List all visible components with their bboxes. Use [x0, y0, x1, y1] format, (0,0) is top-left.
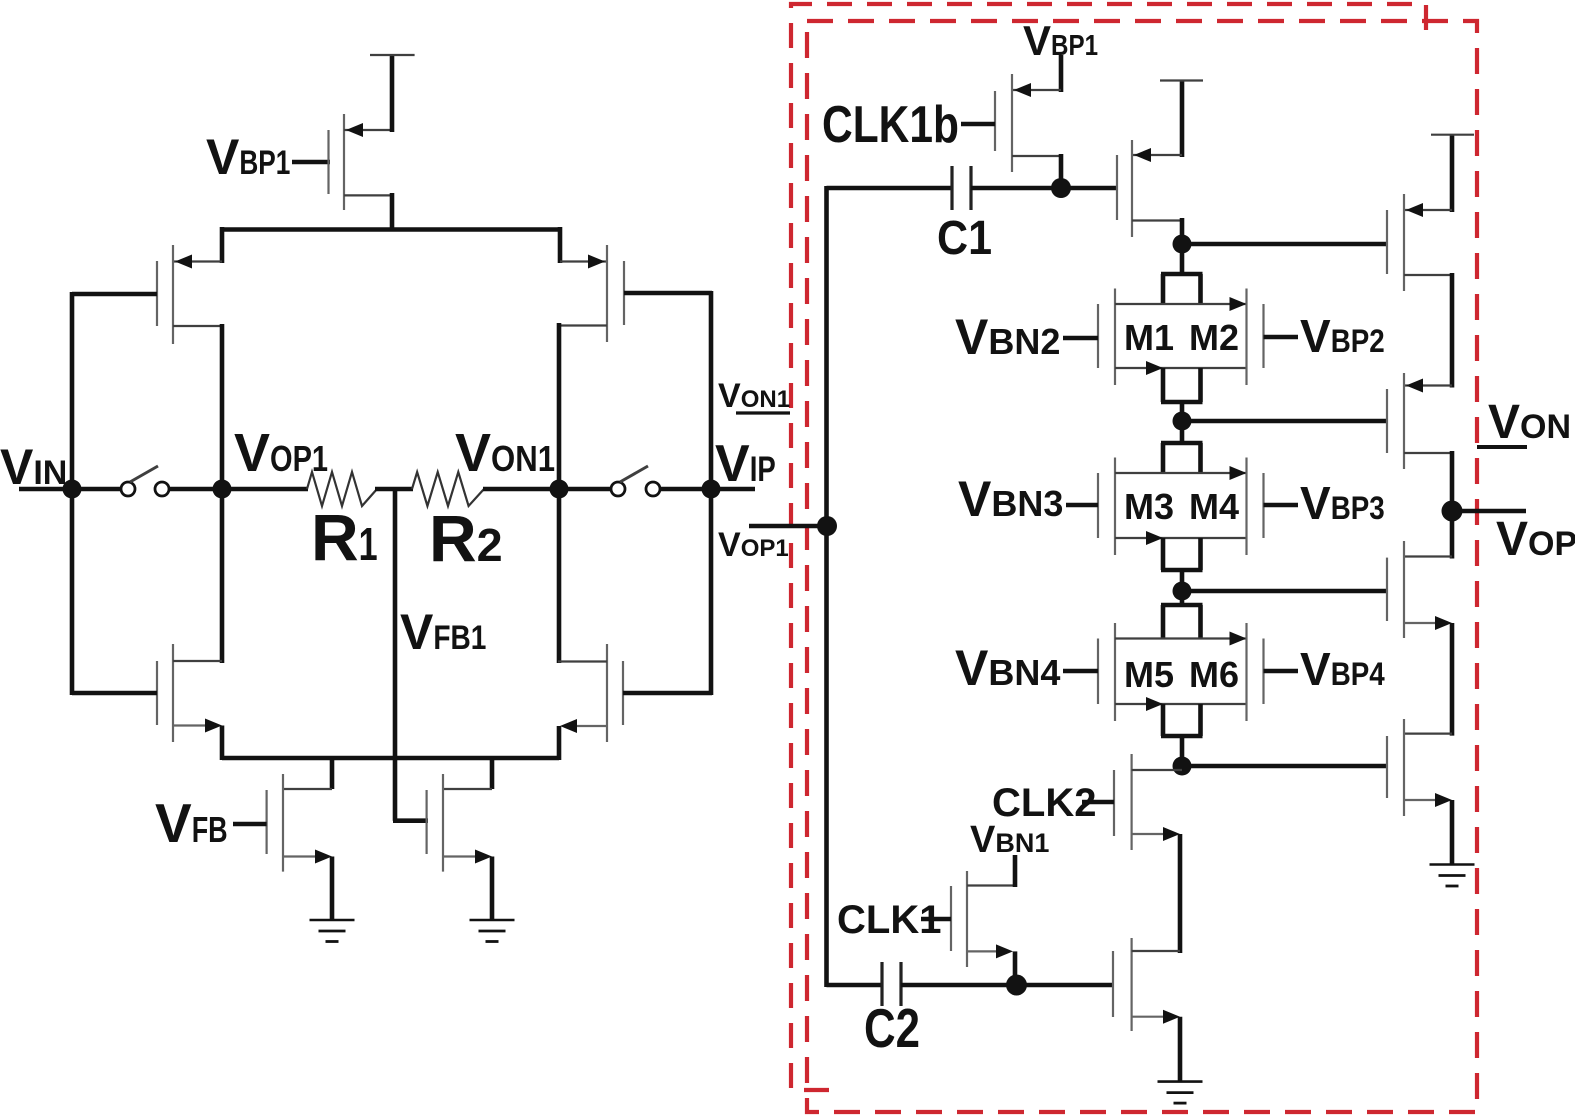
wire VBN4 gate lead [1063, 669, 1098, 674]
transistor NMOS input left [72, 644, 222, 760]
wire VON1 output stub [736, 411, 790, 414]
wire stem out of M3/M4 block [1161, 538, 1203, 591]
node VOP [1442, 501, 1463, 522]
transistor PMOS input left (VIN) [72, 227, 222, 344]
label R2 [429, 501, 503, 575]
capacitor C2 [882, 962, 901, 1006]
label CLK1b [822, 96, 959, 154]
svg-text:C1: C1 [937, 212, 992, 265]
label M4 [1189, 486, 1239, 527]
wire top rail (diff-pair sources) [220, 227, 562, 232]
wire bottom source rail [222, 756, 559, 761]
wire VOP1 drain vertical [220, 324, 225, 663]
label M1 [1124, 317, 1174, 358]
label VBN2 [955, 309, 1060, 365]
label VBP1 (left tail gate) [206, 129, 290, 185]
label VBN1 [970, 819, 1049, 861]
transistor M1 (NMOS) [1098, 289, 1247, 386]
wire to ground (output column) [1450, 800, 1455, 865]
wire VBP1 gate lead [292, 160, 330, 165]
label VBP2 [1300, 310, 1385, 362]
label VBP4 [1300, 643, 1385, 695]
svg-text:M1: M1 [1124, 317, 1174, 358]
label C2 [864, 997, 920, 1059]
svg-text:M5: M5 [1124, 654, 1174, 695]
wire C2 right (to NMOS gate) [901, 983, 1113, 988]
switch S2 (input right) [611, 466, 660, 496]
transistor NMOS tail VFB [233, 756, 332, 920]
label VOP1 output (to 2nd stage) [718, 526, 789, 564]
wire stem into M1/M2 block [1161, 244, 1203, 304]
label R1 [311, 500, 378, 574]
ground (output column) [1430, 865, 1475, 887]
wire VOP1 segment [169, 487, 308, 492]
svg-text:C2: C2 [864, 997, 920, 1059]
ground (VFB1 source) [470, 920, 515, 942]
label C1 [937, 212, 992, 265]
wire VBP1 to CLK1b source [1059, 55, 1064, 92]
svg-text:CLK1: CLK1 [837, 898, 941, 942]
ground (clock branch) [1158, 1082, 1203, 1104]
svg-text:CLK2: CLK2 [992, 781, 1096, 825]
wire VOP1 into 2nd stage [749, 524, 827, 529]
label M5 [1124, 654, 1174, 695]
label M6 [1189, 654, 1239, 695]
resistor R1 [307, 472, 377, 506]
node N1 [1173, 235, 1192, 254]
ground (VFB source) [310, 920, 355, 942]
transistor NMOS tail VFB1 [427, 756, 492, 920]
power stub VDD (tail) [370, 54, 415, 56]
transistor PMOS cascode top [1117, 81, 1182, 247]
wire VOP stub [1452, 509, 1526, 514]
node VON1 [550, 480, 569, 499]
wire stem out of M5/M6 block [1161, 704, 1203, 766]
wire N3 to NMOS gate (right column) [1182, 589, 1387, 594]
outer red dashed box (2nd stage) [791, 4, 1426, 1090]
transistor PMOS tail VBP1 [329, 55, 393, 231]
node N4 [1173, 757, 1192, 776]
transistor PMOS output top (gate N1) [1387, 135, 1452, 291]
wire VON1 drain vertical [557, 323, 562, 663]
transistor NMOS CLK1 (VBN1 cascode) [921, 871, 1015, 986]
wire VOP drain vertical [1450, 451, 1455, 559]
wire feedback tap (R1/R2 mid to VFB1 gate) [393, 489, 428, 821]
svg-text:M6: M6 [1189, 654, 1239, 695]
transistor PMOS output cascode (gate N2) [1387, 373, 1452, 469]
wire left column (C1 to C2) [824, 186, 829, 987]
transistor M5 (NMOS) [1098, 623, 1247, 721]
label VBP3 [1300, 477, 1385, 529]
transistor NMOS output bottom (gate N4) [1387, 719, 1452, 816]
wire stem into M5/M6 block [1161, 591, 1203, 639]
wire VIP gate vertical [709, 291, 714, 695]
wire VIP segment [660, 487, 755, 492]
label CLK2 [992, 781, 1096, 825]
label M3 [1124, 486, 1174, 527]
node C1/CLK1b junction [1051, 178, 1071, 198]
inner red dashed box (2nd stage) [807, 21, 1477, 1112]
label VBP1 (2nd stage) [1023, 17, 1098, 64]
transistor NMOS CLK2 [1082, 754, 1182, 953]
wire C1 left [827, 186, 953, 191]
transistor NMOS bottom (gate from C2) [1113, 938, 1180, 1082]
wire VON1 segment [483, 487, 612, 492]
wire VBP3 gate lead [1264, 503, 1299, 508]
node VIN [63, 480, 82, 499]
wire C2 left [827, 983, 883, 988]
transistor M2 (PMOS) [1247, 289, 1264, 386]
transistor PMOS CLK1b [961, 74, 1061, 190]
wire C1 right (to cascode gate) [971, 186, 1117, 191]
wire VIN lead [19, 487, 123, 492]
wire VBN2 gate lead [1063, 336, 1098, 341]
node VIP [702, 480, 721, 499]
wire resistor centre tap bar [375, 487, 413, 492]
label VIP [715, 435, 776, 493]
svg-text:M2: M2 [1189, 317, 1239, 358]
label VOP1 (node) [234, 423, 328, 483]
power stub VDD (output column) [1431, 134, 1474, 136]
transistor NMOS output cascode (gate N3) [1387, 541, 1452, 638]
wire N1 to PMOS gate (right column) [1182, 242, 1387, 247]
label VBN3 [958, 471, 1063, 527]
wire VBP4 gate lead [1264, 669, 1299, 674]
resistor R2 [412, 472, 484, 506]
label VON1 (node) [455, 423, 555, 483]
wire VBN1 to CLK1 drain [1013, 855, 1018, 887]
svg-text:CLK1b: CLK1b [822, 96, 959, 154]
label VFB1 [400, 604, 486, 660]
wire stem out of M1/M2 block [1161, 368, 1203, 421]
switch S1 (input left) [121, 466, 169, 496]
node N3 [1173, 582, 1192, 601]
label VIN [0, 439, 67, 495]
label CLK1 [837, 898, 941, 942]
wire stem into M3/M4 block [1161, 421, 1203, 473]
transistor PMOS input right (VIP) [559, 227, 712, 342]
label VFB [155, 792, 228, 854]
wire VBN3 gate lead [1066, 503, 1098, 508]
wire N4 to NMOS gate (right column) [1182, 764, 1387, 769]
label M2 [1189, 317, 1239, 358]
wire VON underline stub [1477, 445, 1527, 449]
power stub VDD (cascode top) [1160, 79, 1203, 81]
transistor NMOS input right [558, 644, 712, 760]
wire VIN gate vertical [70, 292, 75, 695]
node N2 [1173, 412, 1192, 431]
wire N2 to PMOS gate (right column) [1182, 419, 1387, 424]
node VOP1 [213, 480, 232, 499]
transistor M4 (PMOS) [1247, 458, 1264, 556]
wire output column lower [1450, 623, 1455, 736]
transistor M6 (PMOS) [1247, 623, 1264, 721]
node C2/CLK1 junction [1006, 975, 1027, 996]
wire output column upper [1450, 273, 1455, 388]
label VBN4 [955, 640, 1060, 696]
label VON1 output (to 2nd stage) [718, 377, 790, 415]
label VON [1488, 396, 1571, 449]
capacitor C1 [952, 166, 971, 210]
wire VBP2 gate lead [1264, 335, 1299, 340]
label VOP [1496, 513, 1575, 566]
svg-text:M3: M3 [1124, 486, 1174, 527]
svg-text:M4: M4 [1189, 486, 1239, 527]
node VOP1 junction (2nd stage input) [817, 516, 837, 536]
transistor M3 (NMOS) [1098, 458, 1247, 556]
